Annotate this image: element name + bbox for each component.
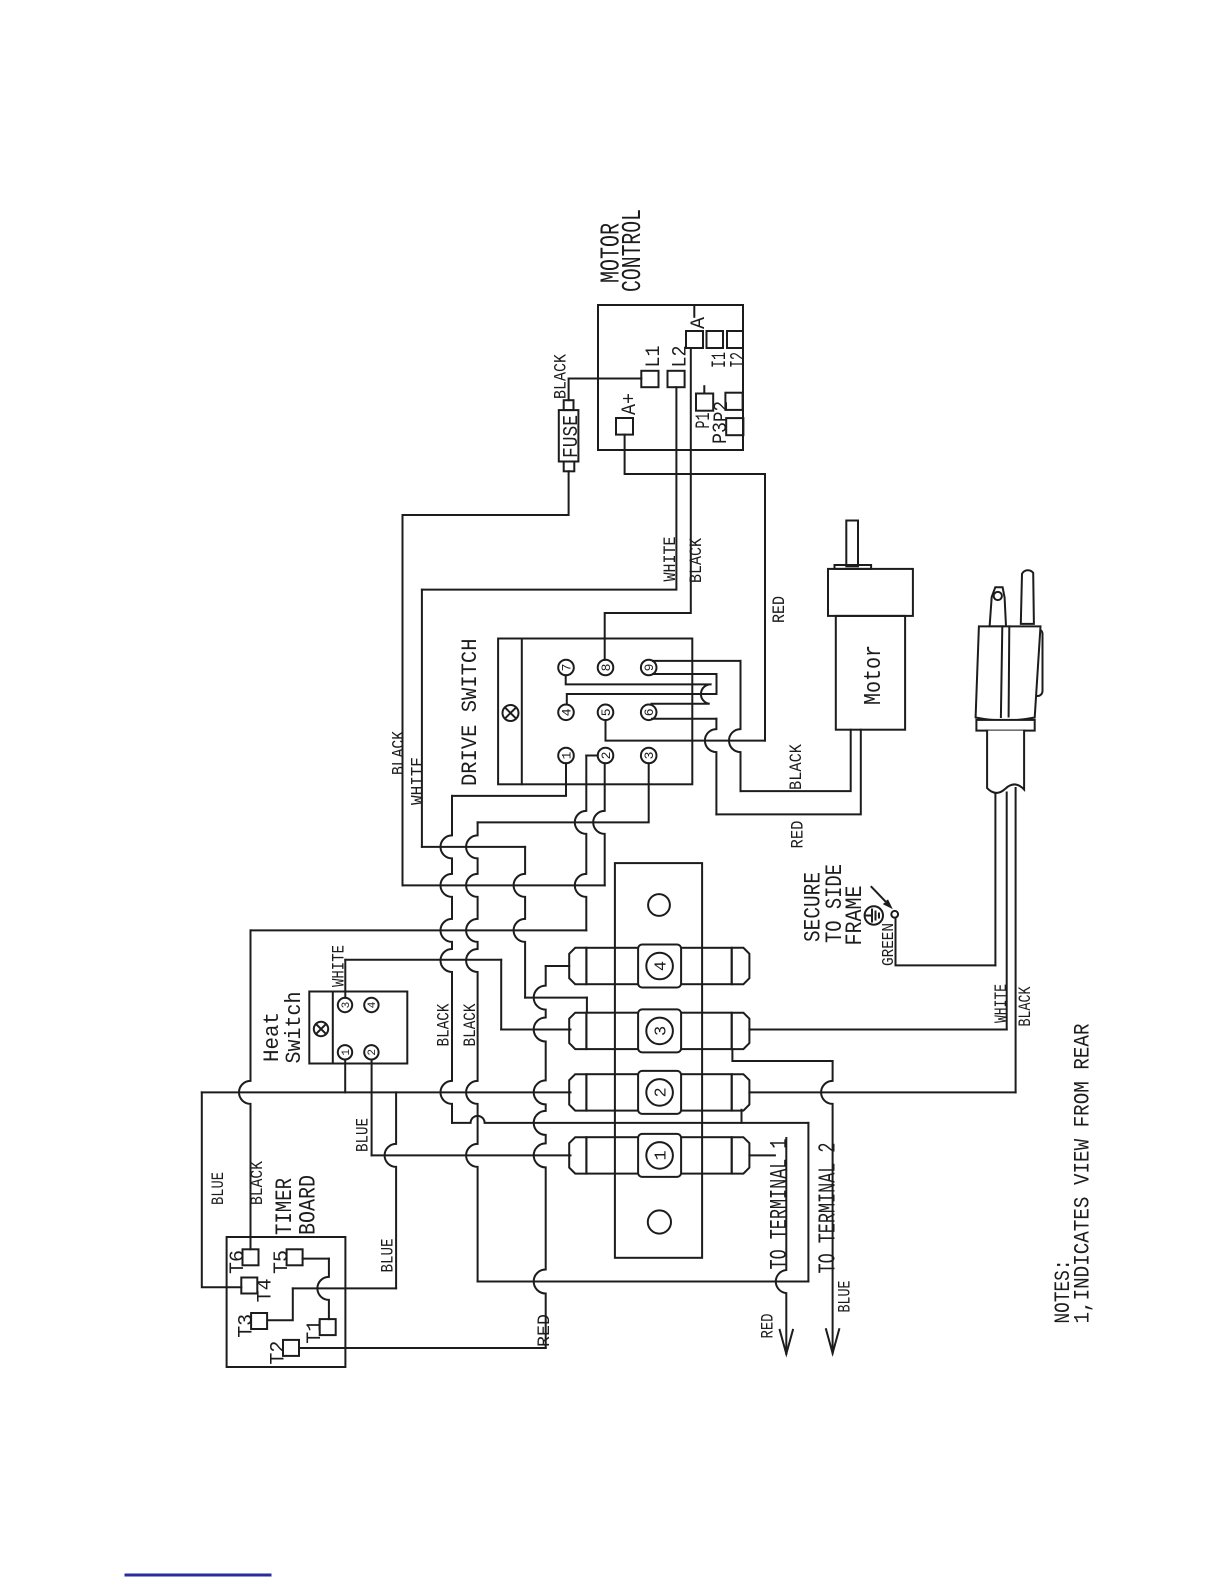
- page footer line: [126, 1574, 270, 1577]
- svg-text:BLACK: BLACK: [389, 731, 409, 775]
- wire blue riser to timer T3: [385, 1092, 397, 1288]
- minus tick of P1: [703, 386, 705, 393]
- drive switch terminal 1: [558, 748, 574, 764]
- minus tick of A-: [693, 306, 695, 317]
- element mounting plate: [615, 863, 702, 1258]
- heat switch terminal 1: [338, 1045, 352, 1059]
- svg-text:A: A: [688, 317, 711, 329]
- svg-text:BOARD: BOARD: [296, 1175, 322, 1235]
- wire across bottom to black drive 3 wire: [478, 1281, 809, 1283]
- heating element 3 left cap: [569, 1013, 586, 1049]
- element 3 label plate: [638, 1009, 681, 1052]
- svg-text:T5: T5: [271, 1250, 294, 1274]
- element 3 number circle: [646, 1018, 673, 1045]
- wire to heat switch 1 riser: [251, 929, 587, 931]
- element 1 label plate: [638, 1134, 681, 1177]
- motor shaft: [846, 521, 858, 567]
- cable wire black: [1015, 788, 1017, 1092]
- svg-text:TO TERMINAL 1: TO TERMINAL 1: [767, 1139, 794, 1270]
- svg-text:I2: I2: [728, 352, 751, 368]
- svg-text:L1: L1: [643, 346, 666, 368]
- terminal P2 on motor control: [725, 393, 742, 410]
- motor body: [836, 616, 905, 730]
- svg-text:WHITE: WHITE: [330, 945, 350, 987]
- wire horizontal to terminal-1 leader with hop: [452, 1116, 808, 1123]
- timer terminal T6: [243, 1249, 259, 1265]
- wire terminal 9 top to motor black: [653, 660, 741, 662]
- heating element 1 left cap: [569, 1137, 586, 1173]
- heating element 2 left cap: [569, 1074, 586, 1110]
- wire element 2 bottom stub: [741, 1110, 743, 1123]
- heating element 4 right cap: [732, 948, 750, 984]
- svg-text:1: 1: [341, 1049, 353, 1056]
- wire timer T5 to T1: [303, 1258, 329, 1260]
- element 4 label plate: [638, 945, 681, 988]
- svg-text:3: 3: [653, 1026, 672, 1036]
- mounting hole top: [648, 894, 670, 916]
- plug hot prong: [1021, 570, 1034, 624]
- wire L2 white vertical: [422, 387, 677, 589]
- prong hole: [994, 592, 1002, 600]
- motor control board outline: [598, 305, 743, 450]
- svg-text:T2: T2: [267, 1341, 290, 1365]
- drive switch terminal 2: [598, 748, 614, 764]
- svg-text:BLUE: BLUE: [354, 1118, 374, 1152]
- mounting hole bottom: [648, 1210, 671, 1233]
- frame screw head: [891, 911, 898, 918]
- wire riser down to timer T6: [239, 930, 250, 1249]
- timer terminal T2: [283, 1340, 299, 1356]
- plug neutral prong with hole: [990, 587, 1006, 626]
- wire fuse bottom to black bus: [403, 471, 569, 515]
- heating element 4 body: [586, 948, 731, 984]
- heating element 1 body: [586, 1137, 731, 1173]
- heating element 3 body: [586, 1013, 731, 1049]
- wire heat 2 blue to element 1: [371, 1060, 373, 1156]
- drive switch indicator circle-x: [503, 705, 519, 721]
- svg-text:3: 3: [341, 1002, 353, 1009]
- drive switch terminal 4: [558, 705, 574, 721]
- plug collar: [976, 720, 1034, 731]
- timer terminal T3: [251, 1313, 267, 1329]
- svg-text:Motor: Motor: [861, 645, 888, 705]
- svg-text:2: 2: [653, 1087, 672, 1097]
- svg-text:BLUE: BLUE: [209, 1172, 229, 1205]
- svg-text:4: 4: [367, 1001, 379, 1008]
- terminal A- on motor control: [686, 331, 703, 348]
- wire heat 1 down to blue bus: [344, 1060, 346, 1093]
- svg-text:4: 4: [653, 961, 672, 971]
- heat switch terminal 3: [338, 998, 352, 1012]
- svg-text:2: 2: [367, 1049, 379, 1056]
- element 1 number circle: [646, 1142, 673, 1169]
- drive switch terminal 8: [598, 660, 614, 676]
- svg-text:BLACK: BLACK: [248, 1161, 268, 1205]
- earth ground symbol: [865, 906, 883, 924]
- element 2 number circle: [646, 1079, 673, 1106]
- timer terminal T5: [287, 1249, 303, 1265]
- timer terminal T4: [241, 1278, 257, 1294]
- svg-text:FUSE: FUSE: [560, 415, 584, 458]
- drive switch terminal 7: [558, 660, 574, 676]
- wire element 1 right stub: [749, 1154, 775, 1156]
- wire terminal-2 leader down: [821, 1061, 832, 1353]
- screw pointer arrow: [872, 887, 890, 906]
- wire terminal 9 bottom to terminal 4: [567, 674, 717, 705]
- svg-text:T3: T3: [235, 1314, 258, 1338]
- cable wire white: [1006, 793, 1008, 1030]
- wire node black bus to drive switch 2 bottom stub: [403, 884, 605, 886]
- svg-text:BLACK: BLACK: [687, 538, 707, 583]
- wire A- black to drive switch 8: [605, 348, 691, 660]
- svg-text:BLACK: BLACK: [435, 1003, 455, 1046]
- svg-text:7: 7: [560, 664, 575, 672]
- fuse bottom cap: [564, 462, 575, 472]
- motor top housing: [828, 569, 913, 616]
- arrowhead to terminal 2: [826, 1329, 839, 1353]
- wire red bus to element 4 and timer T2: [546, 965, 570, 967]
- svg-text:RED: RED: [788, 821, 808, 849]
- heat switch terminal 2: [364, 1045, 378, 1059]
- drive switch terminal 3: [641, 748, 657, 764]
- svg-text:1: 1: [560, 751, 575, 759]
- wire terminal 1 down to black branch: [452, 763, 566, 796]
- svg-text:WHITE: WHITE: [661, 537, 681, 582]
- heating element 4 left cap: [569, 948, 586, 984]
- fuse top cap: [564, 400, 574, 410]
- svg-text:TO TERMINAL 2: TO TERMINAL 2: [816, 1143, 843, 1274]
- plug ground tab: [1026, 629, 1043, 696]
- terminal I2 on motor control: [727, 331, 743, 348]
- svg-text:BLUE: BLUE: [379, 1239, 399, 1273]
- svg-text:8: 8: [599, 664, 614, 672]
- wire black branch vertical drive 3: [466, 822, 477, 1281]
- svg-text:RED: RED: [759, 1314, 779, 1339]
- wire terminal 5 to A+ red junction: [606, 720, 766, 741]
- plug body: [976, 626, 1041, 720]
- svg-text:RED: RED: [770, 596, 790, 623]
- wire terminal 2 left side down: [586, 755, 597, 757]
- wire elem2 stub leader down: [807, 1123, 809, 1282]
- heating element 2 body: [586, 1074, 731, 1110]
- svg-text:1: 1: [653, 1150, 672, 1160]
- terminal L1 on motor control: [641, 371, 658, 387]
- motor shaft plate: [835, 565, 872, 569]
- timer terminal T1: [320, 1319, 336, 1335]
- svg-text:BLUE: BLUE: [836, 1281, 856, 1313]
- svg-text:WHITE: WHITE: [409, 757, 429, 805]
- drive switch terminal 5: [598, 705, 614, 721]
- wire element 2 right black: [749, 1091, 1015, 1093]
- cable wire green: [994, 795, 996, 966]
- heat switch terminal 4: [364, 998, 378, 1012]
- drive switch outline: [498, 639, 692, 785]
- svg-text:2: 2: [599, 752, 614, 760]
- svg-text:T1: T1: [304, 1320, 327, 1344]
- svg-text:RED: RED: [535, 1314, 555, 1347]
- wire blue left drop to timer T4: [202, 1092, 242, 1287]
- heat switch outline: [309, 992, 407, 1064]
- wire element 3 right white: [749, 1029, 1006, 1031]
- wire terminal 3 down to black branch: [478, 763, 649, 822]
- svg-text:GREEN: GREEN: [880, 923, 899, 966]
- heating element 3 right cap: [732, 1013, 750, 1049]
- terminal A+ on motor control: [616, 418, 633, 435]
- element 4 number circle: [646, 953, 673, 980]
- plug cable: [987, 731, 1024, 793]
- terminal L2 on motor control: [668, 371, 685, 387]
- svg-text:BLACK: BLACK: [552, 354, 572, 399]
- svg-text:WHITE: WHITE: [992, 984, 1012, 1023]
- svg-text:DRIVE SWITCH: DRIVE SWITCH: [457, 639, 483, 787]
- heat switch inner divider: [332, 992, 334, 1064]
- terminal P1 on motor control: [696, 394, 713, 411]
- element 2 label plate: [638, 1071, 681, 1114]
- svg-text:6: 6: [642, 708, 657, 716]
- wire A+ to red vertical: [625, 435, 765, 741]
- svg-text:A+: A+: [619, 393, 642, 415]
- svg-text:T6: T6: [227, 1250, 250, 1274]
- svg-text:TIMER: TIMER: [272, 1178, 298, 1235]
- heat switch indicator circle-x: [314, 1022, 328, 1036]
- wire heat 3 white to element 3: [344, 960, 346, 998]
- wire terminal 6 to motor red: [652, 718, 716, 720]
- svg-text:1,INDICATES VIEW FROM REAR: 1,INDICATES VIEW FROM REAR: [1071, 1024, 1096, 1324]
- svg-text:3: 3: [642, 752, 657, 760]
- svg-text:9: 9: [642, 664, 657, 672]
- fuse body: [559, 410, 579, 461]
- svg-text:CONTROL: CONTROL: [619, 209, 649, 292]
- svg-text:T4: T4: [255, 1278, 278, 1302]
- drive switch terminal 9: [641, 660, 657, 676]
- drive switch inner divider: [521, 639, 523, 785]
- wire terminal 2 bottom stub: [593, 763, 605, 885]
- terminal I1 on motor control: [707, 331, 724, 348]
- svg-text:P3: P3: [710, 422, 733, 444]
- terminal P3 on motor control: [726, 418, 743, 435]
- plug body seam: [1001, 626, 1002, 717]
- drive switch terminal 6: [641, 705, 657, 721]
- heating element 1 right cap: [732, 1137, 750, 1173]
- svg-text:Switch: Switch: [282, 992, 307, 1064]
- wire fuse to L1 terminal: [569, 379, 642, 401]
- wire black branch vertical drive 1: [441, 796, 453, 1123]
- wire terminal 7 to terminal 6 with hop: [566, 675, 712, 704]
- svg-text:BLACK: BLACK: [1016, 986, 1036, 1026]
- svg-text:BLACK: BLACK: [461, 1003, 481, 1046]
- heating element 2 right cap: [732, 1074, 750, 1110]
- wire white run to element 3 ring: [421, 590, 423, 847]
- wire black bus vertical from fuse: [402, 515, 404, 885]
- timer board outline: [227, 1237, 346, 1367]
- svg-text:4: 4: [560, 708, 575, 716]
- wire blue bus horizontal: [202, 1091, 571, 1093]
- svg-text:5: 5: [599, 708, 614, 716]
- wire green to frame screw: [896, 918, 996, 966]
- svg-text:BLACK: BLACK: [787, 744, 807, 790]
- wire element 3 bottom to terminal-2 leader: [732, 1049, 832, 1061]
